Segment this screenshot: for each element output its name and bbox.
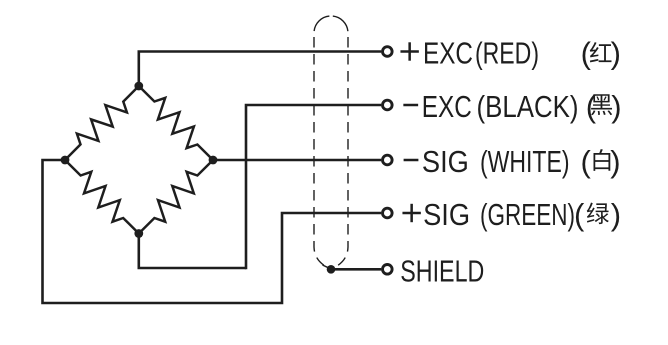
wire bottom node down and right: [139, 234, 246, 269]
svg-text:(: (: [581, 36, 592, 71]
- sign of -EXC: [403, 104, 418, 107]
svg-text:): ): [611, 89, 621, 124]
svg-text:): ): [611, 197, 621, 232]
wire left node down and around to +SIG terminal: [43, 160, 382, 303]
label Chinese (white): [581, 144, 621, 179]
label Chinese (green): [574, 197, 621, 232]
node left (SIG+) junction dot: [61, 156, 70, 165]
-EXC terminal circle: [383, 100, 393, 110]
+EXC terminal circle: [383, 47, 393, 57]
svg-text:(: (: [581, 144, 592, 179]
svg-text:SHIELD: SHIELD: [400, 253, 484, 288]
svg-text:SIG: SIG: [423, 197, 470, 232]
resistor R3 (bottom-left arm of bridge): [65, 160, 139, 234]
cable shield dashed outline (left side): [314, 33, 330, 269]
node right (SIG-) junction dot: [209, 156, 218, 165]
label Chinese (black): [586, 89, 622, 124]
+SIG terminal circle: [383, 208, 393, 218]
svg-text:EXC: EXC: [423, 36, 473, 71]
wire up to -EXC terminal: [246, 105, 381, 269]
svg-text:): ): [610, 144, 620, 179]
resistor R1 (top-left arm of bridge): [65, 86, 139, 160]
cable shield dashed outline (top arc): [314, 16, 348, 33]
label Chinese (red): [581, 36, 621, 71]
cable shield left tail into drain dot: [323, 265, 330, 268]
node top (EXC+) junction dot: [134, 82, 143, 91]
- sign of -SIG: [404, 159, 419, 162]
svg-text:(GREEN): (GREEN): [480, 197, 575, 232]
resistor R4 (bottom-right arm of bridge): [139, 160, 213, 234]
svg-text:EXC: EXC: [422, 89, 472, 124]
cable shield dashed outline (right side): [332, 33, 348, 269]
wire shield drain to SHIELD terminal: [331, 268, 381, 271]
resistor R2 (top-right arm of bridge): [139, 86, 213, 160]
wire top node to +EXC terminal: [139, 52, 381, 87]
+ sign of +EXC: [400, 50, 418, 53]
+ sign of +SIG: [402, 212, 420, 215]
svg-text:(BLACK): (BLACK): [477, 89, 579, 124]
-SIG terminal circle: [383, 155, 393, 165]
shield drain junction dot: [327, 265, 336, 274]
wire right node to -SIG terminal: [213, 159, 381, 162]
svg-text:SIG: SIG: [422, 144, 469, 179]
svg-text:(WHITE): (WHITE): [480, 144, 570, 179]
node bottom (EXC-) junction dot: [134, 229, 143, 238]
svg-text:(: (: [574, 197, 585, 232]
svg-text:(RED): (RED): [475, 36, 539, 71]
SHIELD terminal circle: [383, 265, 393, 275]
svg-text:): ): [611, 36, 621, 71]
